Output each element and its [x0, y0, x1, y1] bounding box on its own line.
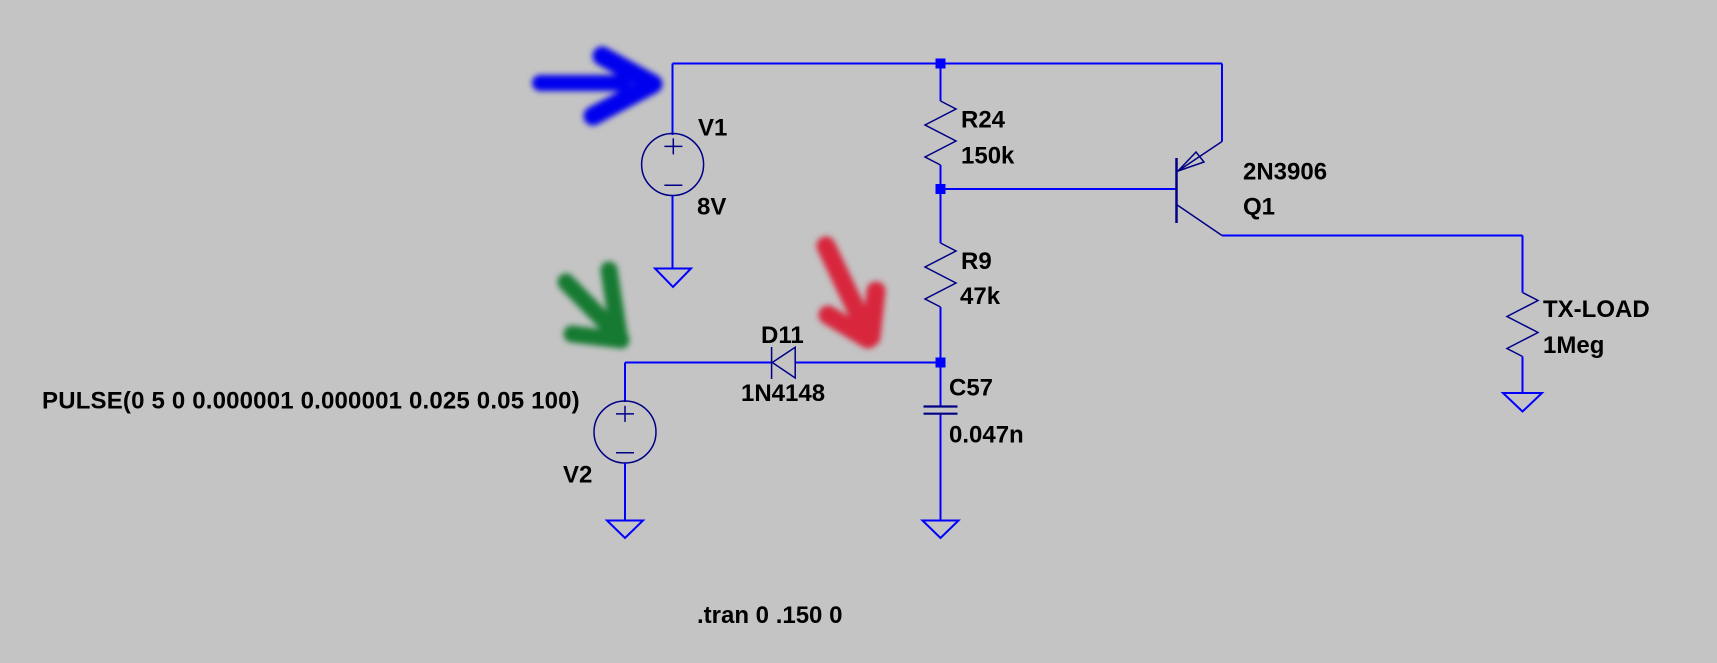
svg-text:150k: 150k [961, 143, 1015, 170]
svg-text:0.047n: 0.047n [949, 422, 1024, 449]
node junction base [936, 184, 946, 194]
ground below V1 [655, 269, 691, 288]
resistor R24 [925, 101, 956, 165]
svg-text:Q1: Q1 [1243, 194, 1275, 221]
svg-text:R9: R9 [961, 248, 992, 275]
svg-text:2N3906: 2N3906 [1243, 159, 1327, 186]
resistor TX-LOAD [1507, 293, 1538, 357]
ground below TX-LOAD [1503, 393, 1542, 412]
voltage source V2 [594, 401, 656, 463]
wire Q1 collector horizontal [1222, 235, 1523, 237]
svg-text:PULSE(0 5 0 0.000001 0.000001: PULSE(0 5 0 0.000001 0.000001 0.025 0.05… [42, 388, 580, 415]
wire V2 top lead [624, 363, 626, 403]
diode D11 [772, 347, 796, 379]
wire V2 bottom lead [624, 463, 626, 521]
svg-text:47k: 47k [960, 283, 1001, 310]
svg-text:TX-LOAD: TX-LOAD [1543, 296, 1650, 323]
wire R24 top lead [940, 64, 942, 102]
annotation green arrow [566, 270, 621, 340]
svg-text:8V: 8V [697, 194, 726, 221]
transistor Q1 body [1177, 142, 1223, 236]
wire R24 to R9 [940, 165, 942, 243]
svg-text:C57: C57 [949, 375, 993, 402]
svg-text:1Meg: 1Meg [1543, 332, 1604, 359]
node junction top rail / R24 [936, 59, 946, 69]
svg-text:1N4148: 1N4148 [741, 380, 825, 407]
node junction cap/diode [936, 358, 946, 368]
wire R9 to cap node [940, 307, 942, 406]
wire TX-LOAD bottom lead [1522, 357, 1524, 394]
wire V1 bottom lead [672, 196, 674, 269]
annotation blue arrow [540, 56, 653, 116]
svg-text:R24: R24 [961, 107, 1006, 134]
svg-text:V2: V2 [563, 462, 592, 489]
ground below C57 [923, 521, 959, 539]
wire V2 to diode anode [625, 362, 772, 364]
wire V1 top lead [672, 64, 674, 136]
wire diode cathode to cap node [795, 362, 940, 364]
svg-text:D11: D11 [761, 322, 804, 349]
wire base node to Q1 [941, 188, 1177, 190]
wire top rail V1 to Q1 emitter [673, 63, 1223, 65]
svg-text:V1: V1 [698, 115, 727, 142]
capacitor C57 [924, 407, 958, 414]
wire Q1 emitter vertical [1221, 64, 1223, 142]
resistor R9 [925, 243, 956, 307]
svg-text:.tran 0 .150 0: .tran 0 .150 0 [697, 602, 842, 629]
ground below V2 [607, 521, 643, 539]
annotation red arrow [826, 246, 876, 339]
voltage source V1 [642, 134, 704, 196]
wire collector down to TX-LOAD [1522, 236, 1524, 293]
wire C57 bottom lead [940, 415, 942, 521]
